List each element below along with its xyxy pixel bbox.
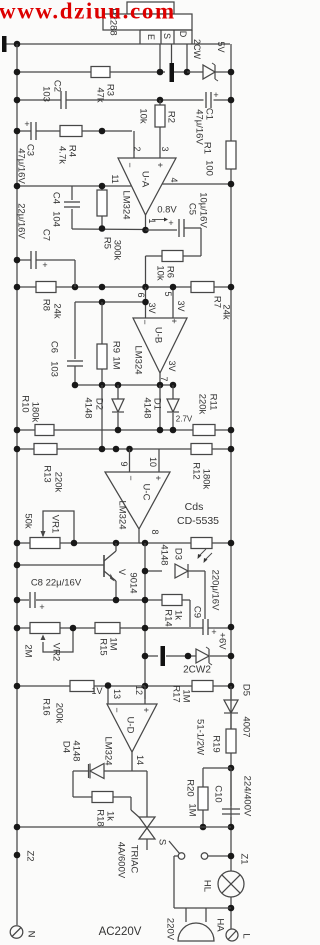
svg-text:4148: 4148 <box>142 397 153 418</box>
label R7 value 24k <box>221 304 232 320</box>
label VR2 <box>51 643 62 661</box>
svg-text:5V: 5V <box>216 41 226 52</box>
label pin 10 <box>148 457 158 467</box>
node bus y447 <box>99 446 106 453</box>
wire row y827 <box>17 826 231 828</box>
label 3V pin5 <box>176 300 186 311</box>
node rail-left y186 <box>14 183 21 190</box>
svg-text:+: + <box>155 162 165 167</box>
label C6 value 103 <box>49 361 60 377</box>
svg-text:+: + <box>213 90 218 100</box>
label R13 value 220k <box>53 472 64 493</box>
resistor R7 <box>191 282 214 293</box>
node E-lead y72 <box>157 69 164 76</box>
svg-text:4148: 4148 <box>71 740 82 761</box>
light arrows <box>198 549 213 563</box>
resistor R19 <box>226 729 236 753</box>
svg-text:4: 4 <box>169 177 179 182</box>
label S <box>157 839 168 845</box>
node rail-left y628 <box>14 625 21 632</box>
svg-text:VR1: VR1 <box>50 515 61 533</box>
label R17 value 1M <box>181 689 192 702</box>
resistor R4 <box>60 126 82 137</box>
svg-text:R19: R19 <box>211 735 222 752</box>
label R13 <box>42 465 53 482</box>
svg-text:51-1/2W: 51-1/2W <box>195 719 206 755</box>
label R4 <box>67 145 78 157</box>
svg-text:2CW2: 2CW2 <box>183 665 211 676</box>
node D2 top <box>115 382 122 389</box>
svg-text:+: + <box>169 318 179 323</box>
label U-A plus <box>155 162 165 167</box>
label pin 9 <box>119 461 129 466</box>
label U-A LM324 <box>121 190 132 219</box>
label R11 value 220k <box>197 394 208 415</box>
wire R20 top <box>203 768 231 787</box>
svg-text:3V: 3V <box>176 300 186 311</box>
label Z1 <box>239 853 250 864</box>
node rail-right y628 <box>228 624 235 631</box>
node bus y287 <box>99 284 106 291</box>
label 0.8V <box>157 205 177 216</box>
resistor R2 <box>155 100 165 158</box>
node ucbus y656 <box>142 653 149 660</box>
svg-text:VR2: VR2 <box>51 643 62 661</box>
node pin13 top <box>105 682 112 689</box>
diode D2 4148 <box>112 385 124 430</box>
label R6 <box>165 266 176 278</box>
transistor P2288 package outline <box>103 2 192 44</box>
svg-text:R20: R20 <box>185 779 196 796</box>
node C7-join y287 <box>72 284 79 291</box>
node bus y131 <box>99 128 106 135</box>
label VR2 value 2M <box>23 644 34 657</box>
svg-text:47μ/16V: 47μ/16V <box>16 148 27 184</box>
wire U-A output lead <box>145 215 147 230</box>
svg-text:0.8V: 0.8V <box>157 205 177 216</box>
wire D3 to C9 top <box>204 571 206 619</box>
label R6 value 10k <box>155 265 166 281</box>
label pin 4 <box>169 177 179 182</box>
node pin5 y287 <box>170 284 177 291</box>
resistor R5 <box>97 186 107 229</box>
diode D5 4007 <box>224 686 238 729</box>
svg-text:R13: R13 <box>42 465 53 482</box>
diode D1 4148 <box>167 385 179 430</box>
label C1 value <box>194 109 205 145</box>
lamp HL <box>218 871 244 897</box>
svg-text:LM324: LM324 <box>121 190 132 219</box>
svg-text:+: + <box>153 475 163 480</box>
resistor R11 <box>193 425 215 436</box>
node y449 a <box>113 446 120 453</box>
svg-text:U-D: U-D <box>125 717 136 734</box>
label D5 value 4007 <box>241 716 252 737</box>
label D5 <box>241 684 252 696</box>
svg-text:Z2: Z2 <box>25 850 36 861</box>
wire pin2 lead <box>133 131 135 158</box>
label R16 <box>41 698 52 715</box>
pin label D <box>178 31 188 38</box>
wire R17 row <box>145 685 231 687</box>
svg-text:24k: 24k <box>221 304 232 320</box>
svg-text:3: 3 <box>160 146 170 151</box>
op-amp U1B triangle <box>133 318 187 373</box>
svg-text:−: − <box>125 162 135 167</box>
resistor R9 <box>97 302 107 385</box>
svg-text:LM324: LM324 <box>117 500 128 529</box>
node y449 b <box>126 446 133 453</box>
svg-text:2CW: 2CW <box>192 39 202 60</box>
svg-text:R12: R12 <box>191 462 202 479</box>
transistor V 9014 <box>104 543 116 598</box>
wire U-D pin13 lead <box>107 686 109 704</box>
svg-text:D2: D2 <box>94 398 105 410</box>
label C9 value <box>210 570 221 612</box>
svg-text:R11: R11 <box>208 394 219 411</box>
node rail-right y430 <box>228 427 235 434</box>
label C1 <box>204 108 215 120</box>
label R20 <box>185 779 196 796</box>
svg-text:R18: R18 <box>95 809 106 826</box>
wire bus 385-447 <box>101 385 103 449</box>
svg-text:R1: R1 <box>202 142 213 154</box>
label D4 <box>61 741 72 753</box>
potentiometer VR2 wiper <box>41 628 74 652</box>
svg-text:R15: R15 <box>98 638 109 655</box>
capacitor C7 electrolytic <box>31 251 48 270</box>
label V <box>117 569 127 575</box>
switch S <box>169 841 208 859</box>
label 1V <box>91 686 102 696</box>
node rail-left y260 <box>14 257 21 264</box>
svg-text:47μ/16V: 47μ/16V <box>194 109 205 145</box>
node bus y385 <box>99 382 106 389</box>
wire row y600 <box>17 599 162 601</box>
node C6 bottom <box>72 382 79 389</box>
label U-D plus <box>141 707 151 712</box>
resistor R13 <box>34 444 57 455</box>
wire output to triac top <box>132 771 147 817</box>
op-amp U1D triangle <box>107 704 157 752</box>
resistor R3 <box>91 67 110 78</box>
label C4 value 104 <box>51 211 62 227</box>
label D1 value 4148 <box>142 397 153 418</box>
potentiometer VR1 wiper <box>41 511 75 543</box>
label pin 2 <box>132 146 142 151</box>
svg-text:−: − <box>112 707 122 712</box>
svg-text:R17: R17 <box>171 685 182 702</box>
label N <box>26 931 37 938</box>
node ucbus y628 <box>142 625 149 632</box>
label R10 <box>20 395 31 412</box>
label R12 <box>191 462 202 479</box>
wire row y302 <box>75 301 146 303</box>
wire row y686 left <box>17 685 145 687</box>
wire U-D pin12 lead <box>144 686 146 704</box>
label pin 3 <box>160 146 170 151</box>
label R12 value 180k <box>201 469 212 490</box>
label pin 11 <box>110 174 120 183</box>
wire vertical U-C out bus <box>144 543 146 699</box>
svg-text:13: 13 <box>112 689 122 699</box>
label U-C <box>141 484 152 501</box>
label HL <box>202 880 213 892</box>
node rail-left y72 <box>14 69 21 76</box>
label R15 value 1M <box>108 637 119 650</box>
node D-lead y72 <box>184 69 191 76</box>
svg-text:50k: 50k <box>23 513 34 529</box>
svg-text:D5: D5 <box>241 684 252 696</box>
svg-text:103: 103 <box>49 361 60 377</box>
node bus y302 <box>99 299 106 306</box>
label pin 7 <box>159 376 169 381</box>
wire D3 row <box>145 570 205 572</box>
svg-text:+: + <box>24 119 29 129</box>
node ucbus y571 <box>142 568 149 575</box>
svg-text:8: 8 <box>150 529 160 534</box>
wire row y72 bar to D node <box>174 71 187 73</box>
terminal L circle <box>226 929 238 941</box>
node ucbus y600 <box>142 597 149 604</box>
svg-text:D4: D4 <box>61 741 72 753</box>
label U-A minus <box>125 162 135 167</box>
svg-text:R8: R8 <box>41 299 52 311</box>
svg-text:+: + <box>168 218 173 228</box>
label 220V <box>165 918 176 941</box>
capacitor C1 electrolytic <box>206 90 219 108</box>
svg-text:10k: 10k <box>155 265 166 281</box>
svg-text:1k: 1k <box>105 811 116 821</box>
wire top supply row y44 <box>4 43 230 45</box>
node R5 bottom <box>99 225 106 232</box>
label U-A <box>140 171 151 188</box>
svg-text:www.dziuu.com: www.dziuu.com <box>0 0 176 24</box>
terminal N circle <box>10 926 23 939</box>
label C10 <box>213 785 224 802</box>
svg-text:3V: 3V <box>147 302 157 313</box>
label CD-5535 <box>177 515 219 527</box>
svg-text:6: 6 <box>136 292 146 297</box>
svg-text:11: 11 <box>110 174 120 183</box>
svg-text:+: + <box>211 627 216 637</box>
label C3 <box>25 144 36 156</box>
node rail-right y100 <box>228 97 235 104</box>
svg-text:D: D <box>178 31 188 38</box>
node rail-left y100 <box>14 97 21 104</box>
wire U-C output lead <box>139 529 145 543</box>
label D3 value 4148 <box>159 544 170 565</box>
capacitor C3 electrolytic <box>24 119 36 140</box>
label R4 value <box>57 146 68 164</box>
label 2CW <box>192 39 202 60</box>
wire row y287 <box>17 286 231 288</box>
label D4 value 4148 <box>71 740 82 761</box>
zener 2CW1 5V <box>203 63 218 81</box>
svg-text:C10: C10 <box>213 785 224 802</box>
wire 9014 base row <box>17 564 104 566</box>
svg-text:100: 100 <box>204 160 215 176</box>
svg-text:4A/600V: 4A/600V <box>116 842 127 879</box>
svg-text:4148: 4148 <box>159 544 170 565</box>
label 2CW2 <box>183 665 211 676</box>
capacitor C4 <box>64 186 80 229</box>
label D2 <box>94 398 105 410</box>
svg-text:R2: R2 <box>166 111 177 123</box>
wire row y229 feedback bottom <box>72 228 146 231</box>
svg-text:10k: 10k <box>138 108 149 124</box>
wire output to D4 <box>104 770 132 772</box>
label U-B minus <box>140 319 150 324</box>
svg-text:224/400V: 224/400V <box>242 776 253 817</box>
label U-C minus <box>126 475 136 480</box>
node VR1 wiper join <box>71 540 78 547</box>
svg-text:10: 10 <box>148 457 158 467</box>
wire U-B pin5 lead <box>172 287 174 318</box>
svg-text:LM324: LM324 <box>133 345 144 374</box>
label D3 <box>173 548 184 560</box>
wire switch left <box>174 856 178 908</box>
label HA <box>215 918 226 932</box>
svg-text:R9: R9 <box>111 341 122 353</box>
label D1 <box>152 398 163 410</box>
svg-text:C6: C6 <box>49 341 60 353</box>
wire right rail x231 <box>230 44 232 929</box>
zener 2CW2 <box>196 647 212 665</box>
label R14 value 1k <box>173 610 184 620</box>
label C3 value <box>16 148 27 184</box>
node U-B out y385 <box>157 382 164 389</box>
label C6 <box>49 341 60 353</box>
svg-text:V: V <box>117 569 127 575</box>
wire row y543 <box>17 542 231 544</box>
wire C5 row <box>146 229 178 231</box>
node D2 bottom <box>115 427 122 434</box>
svg-text:HL: HL <box>202 880 213 892</box>
svg-text:E: E <box>146 34 156 40</box>
label U-B LM324 <box>133 345 144 374</box>
label U-C LM324 <box>117 500 128 529</box>
label R1 value 100 <box>204 160 215 176</box>
label 2.7V <box>176 415 193 424</box>
svg-text:R16: R16 <box>41 698 52 715</box>
label R3 <box>105 84 116 96</box>
label U-D minus <box>112 707 122 712</box>
label R14 <box>163 609 174 626</box>
svg-text:C4: C4 <box>51 192 62 204</box>
node rail-left y131 <box>14 128 21 135</box>
wire switch right <box>208 855 231 857</box>
node bus y186 <box>99 183 106 190</box>
node rail-right y72 <box>228 69 235 76</box>
node rail-left y543 <box>14 540 21 547</box>
svg-text:+: + <box>39 602 44 612</box>
wire C5 to corner <box>184 228 201 256</box>
label R10 value 180k <box>30 402 41 423</box>
label pin 6 <box>136 292 146 297</box>
potentiometer VR2 body <box>30 623 60 634</box>
resistor R18 <box>92 792 113 803</box>
label +6V <box>217 632 228 650</box>
pin label S <box>162 33 172 39</box>
wire pin4 to rail <box>163 183 232 185</box>
svg-text:103: 103 <box>41 86 52 102</box>
svg-text:2: 2 <box>132 146 142 151</box>
svg-text:Cds: Cds <box>185 501 204 513</box>
node rail-right y908 <box>228 905 235 912</box>
label R18 value 1k <box>105 811 116 821</box>
ground thick bar <box>161 646 166 666</box>
svg-text:C2: C2 <box>52 80 63 92</box>
op-amp U1C triangle <box>105 472 170 529</box>
node rail-right y447 <box>228 446 235 453</box>
node zener-left <box>185 653 192 660</box>
svg-text:S: S <box>162 33 172 39</box>
wire bell row <box>174 907 231 909</box>
node D1 top <box>170 382 177 389</box>
node rail-right y827 <box>228 824 235 831</box>
svg-text:220k: 220k <box>53 472 64 493</box>
wire R20 bottom <box>202 810 204 827</box>
node U-C out y543 <box>142 540 149 547</box>
svg-text:+: + <box>141 707 151 712</box>
node pin6 lead y302 <box>142 299 149 306</box>
label R5 <box>102 237 113 249</box>
node rail-left y447 <box>14 446 21 453</box>
label C7 value <box>16 203 27 239</box>
label R7 <box>212 296 223 308</box>
svg-text:U-C: U-C <box>141 484 152 501</box>
wire row y72 to zener <box>187 71 203 73</box>
svg-text:104: 104 <box>51 211 62 227</box>
node rail-right y543 <box>228 540 235 547</box>
svg-text:1k: 1k <box>173 610 184 620</box>
label C5 value <box>198 192 209 228</box>
label L <box>241 933 252 938</box>
label VR1 value 50k <box>23 513 34 529</box>
label C2 value 103 <box>41 86 52 102</box>
node rail-left y565 <box>14 562 21 569</box>
wire 2CW2 row <box>145 655 231 657</box>
label R15 <box>98 638 109 655</box>
label R9 <box>111 341 122 353</box>
svg-text:4.7k: 4.7k <box>57 146 68 164</box>
node ucbus y686 <box>142 683 149 690</box>
resistor R10 <box>35 425 54 436</box>
label R2 <box>166 111 177 123</box>
svg-text:L: L <box>241 933 252 938</box>
svg-text:9: 9 <box>119 461 129 466</box>
wire row y72 left <box>17 71 165 73</box>
svg-text:22μ/16V: 22μ/16V <box>16 203 27 239</box>
label pin 14 <box>135 755 145 765</box>
label C9 <box>192 606 203 618</box>
label P2288 <box>108 8 119 35</box>
wire R6 right <box>183 255 201 257</box>
svg-text:+: + <box>42 260 47 270</box>
arrow annotation <box>152 218 168 222</box>
label pin 5 <box>163 291 173 296</box>
wire row y385 <box>75 384 173 386</box>
label R18 <box>95 809 106 826</box>
label 5V <box>216 41 226 52</box>
wire U-B output lead <box>159 373 161 385</box>
wire D lead <box>186 44 188 72</box>
svg-text:220μ/16V: 220μ/16V <box>210 570 221 612</box>
potentiometer VR1 body <box>30 538 60 549</box>
node D1 bottom <box>170 427 177 434</box>
svg-text:Z1: Z1 <box>239 853 250 864</box>
